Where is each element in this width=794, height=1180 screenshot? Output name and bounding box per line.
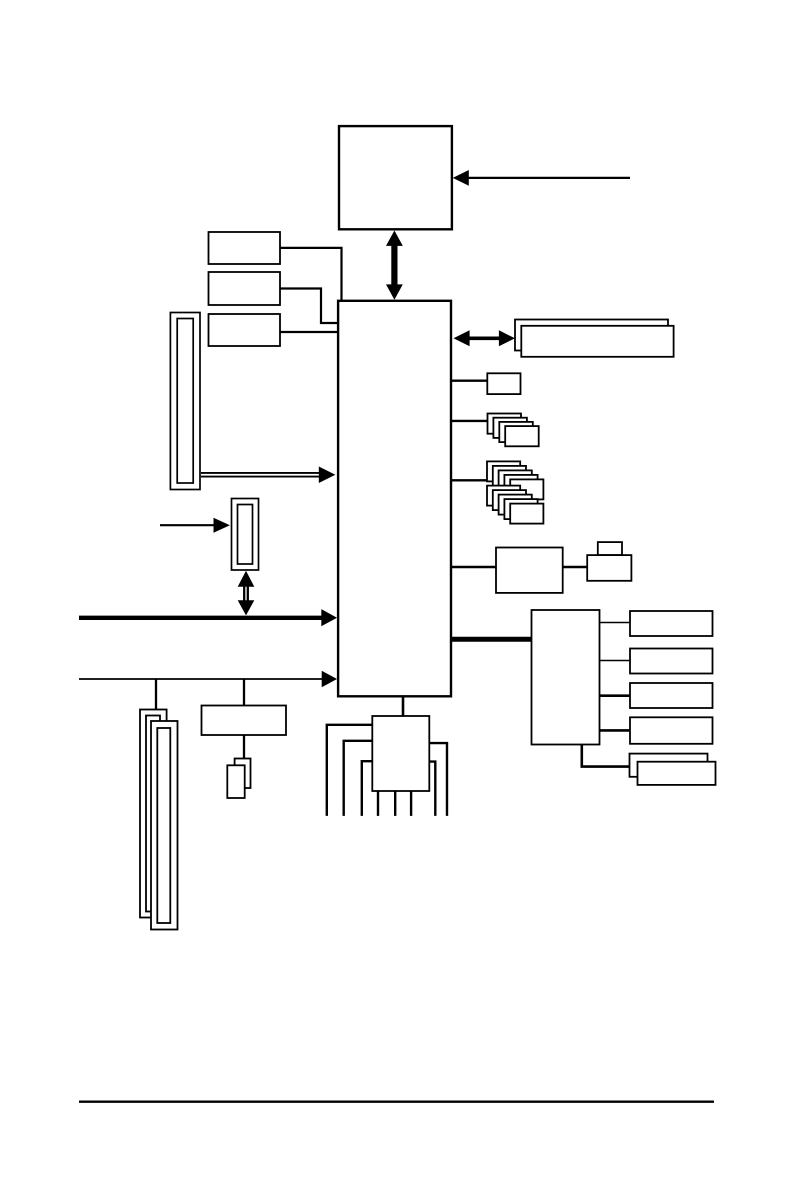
footer rule	[79, 1101, 714, 1103]
port box E front	[638, 762, 716, 785]
bus: chipset to super IO thick line	[451, 637, 532, 642]
ISA slot front outer	[151, 721, 178, 930]
bus: PCI thick bus arrow into chipset	[79, 609, 337, 626]
wire: header leg left 1	[327, 725, 372, 816]
audio stack row B box 3	[499, 495, 532, 515]
audio stack row A box 5	[510, 479, 543, 499]
bus: CPU to chipset bidirectional arrow	[386, 231, 403, 300]
AMR slot outer	[232, 499, 259, 571]
audio stack row A box 3	[499, 470, 532, 490]
USB stack box 3	[499, 422, 533, 442]
connector box front	[227, 765, 244, 798]
ISA slot front inner	[157, 728, 170, 923]
speaker hat box	[598, 542, 622, 555]
chipset block U2	[338, 301, 451, 697]
ISA slot back inner	[146, 716, 160, 912]
ROM block 3	[209, 314, 281, 346]
wire: super IO to port D	[600, 729, 631, 732]
bus: chipset to memory bidirectional arrow	[454, 330, 516, 346]
audio stack row B box 1	[487, 486, 520, 506]
wire: chipset to audio stack	[451, 479, 487, 481]
connector box back	[235, 759, 251, 789]
wire: header leg bottom 2	[394, 791, 396, 816]
wire: super IO to port B	[600, 660, 631, 662]
wire: header leg right 2	[429, 762, 435, 816]
speaker body box	[587, 555, 631, 581]
USB stack box 4	[505, 426, 539, 446]
wire: header leg bottom 3	[410, 791, 412, 816]
USB stack box 2	[493, 418, 527, 438]
wire: block3 to chipset left	[280, 331, 338, 333]
header box	[372, 716, 429, 791]
bus: AMR to PCI-bus vertical double arrow	[238, 571, 255, 616]
wire: header leg right 1	[429, 743, 447, 816]
wire: header leg left 3	[362, 761, 372, 816]
wire: super IO to port A	[600, 622, 631, 624]
wire: header leg bottom 1	[377, 791, 379, 816]
memory module front	[521, 326, 673, 357]
audio stack row B box 2	[493, 490, 526, 510]
wire: header leg left 2	[344, 741, 372, 816]
wire: bus drop to ISA slots	[155, 680, 157, 711]
port box C	[630, 683, 713, 708]
wire: block2 to chipset left	[280, 289, 338, 324]
codec box	[496, 548, 563, 593]
wire: super IO to port E	[582, 744, 629, 766]
wire: chipset bottom to header box	[402, 696, 405, 716]
wire: super IO to port C	[600, 694, 631, 697]
wire: IDE box to connectors	[243, 735, 245, 760]
audio stack row A box 1	[487, 461, 520, 481]
wire: chipset to codec box	[450, 566, 497, 568]
ROM block 2	[209, 272, 281, 305]
wire: arrow into AMR slot from left	[160, 518, 230, 533]
audio stack row B box 5	[510, 504, 543, 524]
wire: codec box to speaker	[563, 566, 588, 569]
small box R1	[487, 373, 520, 394]
wire: chipset to small box R1	[451, 380, 487, 382]
bus: AGP double-line arrow into chipset	[201, 467, 335, 484]
AMR slot inner	[238, 505, 253, 565]
USB stack box 1	[488, 414, 522, 434]
ISA slot back outer	[140, 710, 167, 918]
wire: bus drop to IDE box	[243, 680, 245, 707]
audio stack row B box 4	[504, 499, 537, 519]
CPU block U1	[339, 126, 452, 229]
wire: chipset to USB stack	[451, 420, 487, 422]
port box D	[630, 717, 713, 744]
ROM block 1	[209, 232, 281, 264]
wire: block1 to chipset top	[280, 248, 342, 300]
super IO block U3	[532, 610, 600, 745]
AGP slot outer	[170, 313, 200, 490]
audio stack row A box 4	[504, 475, 537, 495]
AGP slot inner	[177, 319, 193, 484]
bus: lower thin bus arrow into chipset	[79, 671, 337, 688]
IDE box	[202, 706, 287, 736]
wire: arrow into CPU from right	[453, 170, 630, 186]
port box E back	[630, 754, 708, 777]
port box B	[630, 649, 713, 674]
audio stack row A box 2	[493, 466, 526, 486]
memory module back	[515, 320, 668, 351]
port box A	[630, 611, 713, 636]
